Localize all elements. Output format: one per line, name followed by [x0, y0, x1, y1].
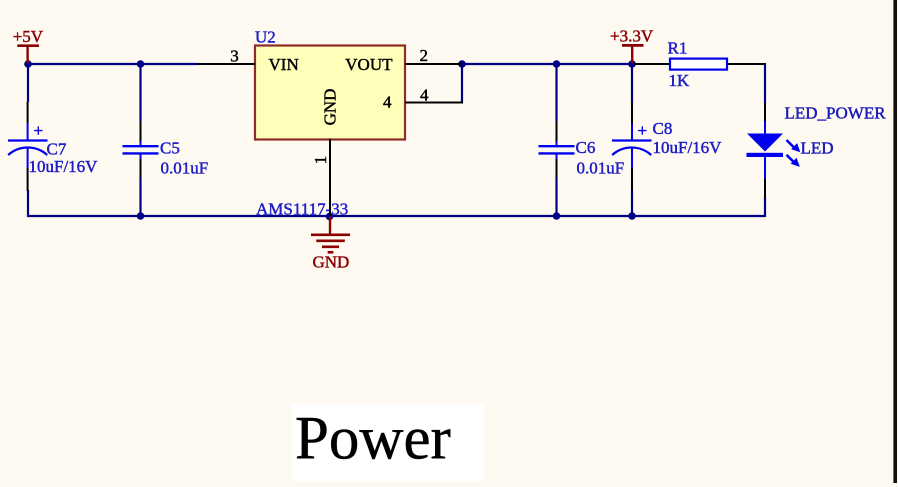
capacitor C6 (0.01uF) — [539, 121, 625, 178]
node: C5 top junction — [137, 60, 145, 68]
svg-text:10uF/16V: 10uF/16V — [29, 157, 99, 176]
node: C8 bottom junction — [628, 212, 636, 220]
pin 2 (VOUT) — [405, 46, 462, 65]
capacitor C8 (polarized 10uF/16V) — [612, 102, 722, 191]
svg-text:VIN: VIN — [269, 55, 299, 74]
svg-text:LED: LED — [801, 139, 834, 158]
resistor R1 (1K) — [634, 39, 766, 91]
svg-text:Power: Power — [295, 406, 451, 473]
LED emission arrow 2 — [787, 155, 794, 162]
wire: LED branch vertical bottom — [764, 197, 766, 217]
capacitor C5 (0.01uF) — [123, 121, 209, 178]
svg-text:LED_POWER: LED_POWER — [785, 104, 887, 123]
capacitor C7 (polarized 10uF/16V) — [8, 102, 98, 191]
svg-text:U2: U2 — [255, 28, 276, 47]
wire: left vertical bottom (C7 to bottom bus) — [27, 190, 29, 217]
svg-text:1: 1 — [311, 156, 330, 165]
power port +5V — [13, 27, 44, 63]
wire: C5 top — [139, 64, 141, 121]
node: +5V junction — [24, 60, 32, 68]
svg-text:3: 3 — [230, 47, 239, 66]
LED emission arrow 1 — [787, 140, 795, 148]
svg-text:C8: C8 — [653, 119, 673, 138]
op-amp U2 body (AMS1117-33 regulator) — [255, 28, 405, 219]
node: GND junction — [326, 213, 334, 221]
ground — [311, 217, 350, 272]
pin 4 — [405, 85, 463, 104]
wire: C8 bottom — [631, 190, 633, 216]
svg-text:+3.3V: +3.3V — [610, 27, 654, 46]
svg-text:2: 2 — [420, 46, 429, 65]
wire: VOUT bus (pin2 junction to +3.3V junction) — [462, 63, 633, 65]
node: +3.3V junction — [628, 60, 636, 68]
pin 1 (GND) — [311, 139, 330, 217]
sheet right border — [893, 0, 897, 483]
svg-text:AMS1117-33: AMS1117-33 — [256, 199, 348, 218]
svg-text:C6: C6 — [576, 138, 596, 157]
wire: pin4 feedback vertical — [461, 64, 463, 103]
wire: top bus +5V side (junction to pin3) — [28, 63, 198, 65]
svg-text:0.01uF: 0.01uF — [577, 159, 625, 178]
wire: left vertical top (to C7) — [27, 63, 29, 102]
svg-text:+5V: +5V — [13, 27, 44, 46]
wire: C6 top — [555, 64, 557, 121]
svg-text:4: 4 — [420, 85, 429, 104]
node: C6 top junction — [553, 60, 561, 68]
node: VOUT junction — [458, 60, 466, 68]
svg-text:0.01uF: 0.01uF — [161, 159, 209, 178]
wire: C8 top — [631, 64, 633, 102]
node: C6 bottom junction — [553, 212, 561, 220]
svg-text:GND: GND — [313, 253, 350, 272]
svg-text:10uF/16V: 10uF/16V — [653, 138, 723, 157]
wire: LED branch vertical top — [764, 64, 766, 103]
LED diode D (LED) — [747, 103, 834, 198]
svg-text:VOUT: VOUT — [345, 55, 393, 74]
power port +3.3V — [610, 27, 654, 64]
svg-text:1K: 1K — [669, 71, 691, 90]
wire: bottom bus — [27, 215, 765, 217]
svg-text:+: + — [638, 121, 648, 140]
svg-text:GND: GND — [321, 89, 340, 126]
svg-text:R1: R1 — [668, 39, 688, 58]
node: C5 bottom junction — [137, 212, 145, 220]
svg-text:+: + — [34, 121, 44, 140]
wire: C6 bottom — [555, 177, 557, 216]
svg-text:C7: C7 — [47, 140, 67, 159]
title block: Power — [292, 404, 484, 482]
pin 3 (VIN) — [198, 47, 255, 66]
svg-text:4: 4 — [383, 93, 392, 112]
wire: C5 bottom — [139, 177, 141, 216]
svg-text:C5: C5 — [160, 139, 180, 158]
